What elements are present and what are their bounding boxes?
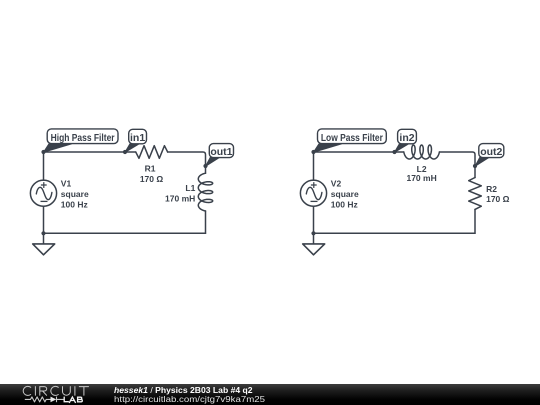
flag out2 pointer xyxy=(475,157,489,166)
svg-text:V1: V1 xyxy=(61,179,72,189)
svg-text:in1: in1 xyxy=(130,132,145,144)
CircuitLab logo word CIRCUIT (thin stroked letters) xyxy=(23,386,88,395)
wire bottom rail right circuit xyxy=(314,232,476,234)
wire R1 right lead to top-right corner and down to L1 xyxy=(168,152,206,173)
node dot in1 xyxy=(123,150,127,154)
wire bottom rail left circuit xyxy=(44,232,206,234)
node dot ground junction left xyxy=(41,231,45,235)
svg-text:out1: out1 xyxy=(210,146,232,158)
V2 plus sign xyxy=(311,182,317,188)
logo diode triangle xyxy=(51,397,57,403)
svg-text:R2: R2 xyxy=(486,184,497,194)
logo diode bar xyxy=(56,397,58,403)
svg-text:http://circuitlab.com/cjtg7v9k: http://circuitlab.com/cjtg7v9ka7m25 xyxy=(114,394,265,404)
flag out1 pointer xyxy=(206,157,220,166)
flag out1 box xyxy=(209,144,233,158)
svg-text:square: square xyxy=(61,189,89,199)
svg-text:out2: out2 xyxy=(480,146,502,158)
ground symbol left xyxy=(33,244,55,255)
wire ground lead right xyxy=(313,233,315,244)
node dot ground junction right xyxy=(311,231,315,235)
voltage source V2 circle xyxy=(300,180,326,206)
resistor R1 xyxy=(136,146,168,159)
flag in2 pointer xyxy=(395,144,409,152)
V2 minus sign xyxy=(311,200,318,202)
wire top rail left (node A to R1 left lead) xyxy=(44,151,136,153)
node dot out1 xyxy=(203,164,207,168)
flag out2 box xyxy=(479,144,504,158)
svg-text:square: square xyxy=(331,189,359,199)
svg-text:Low Pass Filter: Low Pass Filter xyxy=(321,132,383,144)
wire L2 right lead to corner, down to R2 xyxy=(439,152,475,178)
wire V1 bottom to ground node xyxy=(43,206,45,233)
node dot in2 xyxy=(392,150,396,154)
wire L1 bottom lead down xyxy=(205,211,207,233)
V2 sine glyph xyxy=(306,187,322,199)
wire left rail V1 top xyxy=(43,152,45,180)
svg-text:R1: R1 xyxy=(145,164,156,174)
svg-text:V2: V2 xyxy=(331,179,342,189)
svg-text:100 Hz: 100 Hz xyxy=(331,200,358,210)
resistor R2 xyxy=(469,178,482,210)
node dot top-left (net in to HPF label) xyxy=(41,150,45,154)
node dot top-left right circuit xyxy=(311,150,315,154)
svg-text:170 Ω: 170 Ω xyxy=(140,174,164,184)
svg-text:170 mH: 170 mH xyxy=(406,173,436,183)
V1 minus sign xyxy=(41,200,48,202)
svg-text:170 mH: 170 mH xyxy=(165,193,195,203)
wire left rail V2 top xyxy=(313,152,315,180)
wire top rail right circuit to L2 xyxy=(314,151,404,153)
inductor L2 xyxy=(404,145,440,159)
ground symbol right xyxy=(303,244,325,255)
wire V2 bottom to ground node xyxy=(313,206,315,233)
logo word LAB xyxy=(64,397,82,402)
callout High Pass Filter box xyxy=(47,129,118,144)
flag in1 box xyxy=(129,129,147,144)
logo resistor zigzag + wire xyxy=(25,397,64,403)
node dot out2 xyxy=(473,164,477,168)
flag in2 box xyxy=(398,129,417,144)
wire ground lead xyxy=(43,233,45,244)
V1 sine glyph xyxy=(36,187,52,199)
voltage source V1 circle xyxy=(30,180,56,206)
wire R2 bottom lead xyxy=(474,209,476,233)
V1 plus sign xyxy=(41,182,47,188)
svg-text:High Pass Filter: High Pass Filter xyxy=(51,132,115,144)
svg-text:170 Ω: 170 Ω xyxy=(486,194,510,204)
flag in1 pointer xyxy=(125,144,139,152)
svg-text:100 Hz: 100 Hz xyxy=(61,200,88,210)
svg-text:L1: L1 xyxy=(185,183,195,193)
callout High Pass Filter pointer xyxy=(44,144,72,152)
callout Low Pass Filter pointer xyxy=(314,144,342,152)
callout Low Pass Filter box xyxy=(318,129,387,144)
inductor L1 xyxy=(198,173,212,211)
svg-text:in2: in2 xyxy=(399,132,414,144)
